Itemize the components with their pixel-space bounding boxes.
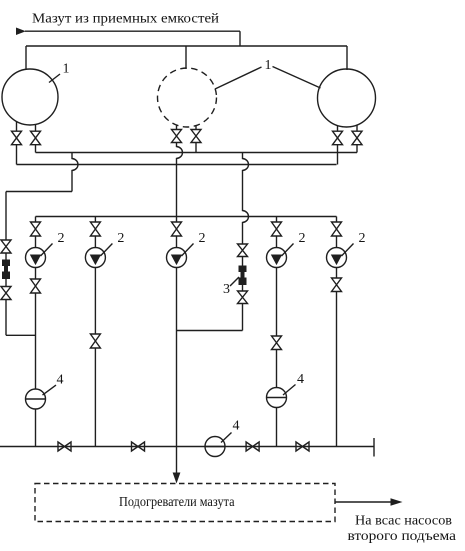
- svg-text:Мазут из приемных емкостей: Мазут из приемных емкостей: [32, 12, 220, 27]
- pump5 discharge wire: [336, 268, 338, 279]
- tank2 left outlet stub: [176, 126, 178, 130]
- pump1 wire to manifold: [35, 409, 37, 447]
- pump P5 (item 2): [327, 248, 347, 268]
- pump4 discharge wire: [276, 268, 278, 337]
- svg-text:2: 2: [299, 231, 306, 246]
- arrowhead into heaters: [173, 473, 181, 484]
- tank3 left outlet stub: [337, 126, 339, 132]
- wire tank1-left-valve to collector B: [16, 145, 18, 165]
- manifold valve 1: [58, 442, 71, 451]
- wire to tank T2 top: [185, 46, 187, 69]
- svg-text:На всас насосов: На всас насосов: [355, 514, 452, 529]
- filter F2 (item 3): [239, 266, 247, 286]
- drop from collector A over collector B: [72, 153, 78, 192]
- pump5 wire to manifold: [336, 292, 338, 447]
- pump2 discharge valve: [90, 334, 100, 348]
- wire filter F2 down: [242, 304, 244, 331]
- flow meter FM2 (item 4): [267, 388, 287, 408]
- tank1 right outlet stub: [35, 124, 37, 131]
- tank 2 (middle, dashed, item 1): [158, 68, 217, 127]
- pump suction header: [36, 216, 337, 218]
- tank3 right outlet stub: [356, 125, 358, 131]
- wire: [5, 279, 7, 287]
- flow meter FM3 (item 4) on manifold: [205, 437, 225, 457]
- pump1 discharge wire down: [35, 293, 37, 389]
- leader to label 2 (pump5): [342, 244, 354, 257]
- inlet flow arrowhead: [16, 28, 26, 36]
- svg-text:2: 2: [117, 231, 124, 246]
- pump1 suction valve: [31, 222, 41, 236]
- wire to left filter branch: [6, 191, 72, 193]
- pump5 suction wire: [336, 236, 338, 248]
- wire: [5, 253, 7, 260]
- wire tank3-right-valve to collector A: [356, 145, 358, 153]
- valve under tank1 right: [31, 131, 41, 145]
- pump3 suction wire: [176, 236, 178, 248]
- svg-text:2: 2: [359, 231, 366, 246]
- pump P3 (item 2): [167, 248, 187, 268]
- wire filter F1 down: [5, 300, 7, 336]
- wire tank2-left-valve over collector A to suction header: [177, 143, 183, 217]
- leader to label 1 (left): [49, 74, 60, 83]
- tank 1 (left, item 1): [2, 69, 58, 125]
- discharge manifold: [0, 446, 374, 448]
- leader to label 4 (FM1): [43, 385, 57, 395]
- valve under tank1 left: [12, 131, 22, 145]
- leader to label 3: [230, 277, 239, 286]
- tank1 left outlet stub: [16, 121, 18, 131]
- valve under tank2 right: [191, 130, 201, 143]
- pump P4 (item 2): [267, 248, 287, 268]
- manifold end terminator: [373, 438, 375, 457]
- pump3 suction valve: [172, 222, 182, 236]
- leader from label 1 to tank 2: [215, 67, 262, 89]
- pump2 suction valve: [90, 222, 100, 236]
- wire filter F2 to pump3 discharge: [177, 330, 243, 332]
- flow meter FM1 (item 4): [26, 389, 46, 409]
- svg-text:1: 1: [265, 58, 272, 73]
- svg-text:4: 4: [297, 372, 304, 387]
- manifold valve 4: [296, 442, 309, 451]
- wire to tank T1 top: [25, 46, 27, 70]
- svg-text:3: 3: [223, 282, 230, 297]
- pump1 suction stub: [35, 217, 37, 223]
- pump2 suction stub: [94, 217, 96, 223]
- pump1 discharge valve: [31, 279, 41, 293]
- leader to label 4 (FM2): [283, 385, 296, 396]
- valve above filter F1: [1, 240, 11, 253]
- pump2 suction wire: [94, 236, 96, 248]
- valve below filter F2: [238, 291, 248, 304]
- filter F1: [2, 260, 10, 280]
- svg-text:2: 2: [199, 231, 206, 246]
- manifold valve 2: [132, 442, 145, 451]
- pump4 wire down: [276, 350, 278, 388]
- valve under tank2 left: [172, 130, 182, 143]
- drop from collector A over collector B and header: [243, 153, 249, 245]
- pump4 suction valve: [272, 222, 282, 236]
- svg-text:второго подъема: второго подъема: [348, 529, 457, 544]
- svg-text:4: 4: [233, 419, 240, 434]
- leader to label 2 (pump2): [100, 244, 112, 257]
- wire tank1-right-valve to collector A: [35, 145, 37, 153]
- pump P2 (item 2): [85, 248, 105, 268]
- pump3 suction stub: [176, 217, 178, 223]
- valve below filter F1: [1, 287, 11, 300]
- outlet arrowhead: [391, 498, 403, 506]
- pump1 suction wire: [35, 236, 37, 248]
- wire: [242, 257, 244, 266]
- tank 3 (right, item 1): [318, 69, 376, 127]
- pump5 suction stub: [336, 217, 338, 223]
- tank2 right outlet stub: [195, 126, 197, 130]
- wire to tank T3 top: [346, 46, 348, 70]
- collector A: [36, 152, 358, 154]
- tank top header wire: [26, 45, 347, 47]
- leader from label 1 to tank 3: [273, 67, 321, 89]
- pump5 discharge valve: [332, 278, 342, 292]
- pump5 suction valve: [332, 222, 342, 236]
- pump4 wire to manifold: [276, 408, 278, 447]
- wire tank3-left-valve to collector B: [337, 145, 339, 165]
- leader to label 2 (pump3): [182, 244, 194, 257]
- leader to label 2 (pump1): [41, 244, 53, 257]
- pump4 suction stub: [276, 217, 278, 223]
- svg-text:1: 1: [63, 62, 70, 77]
- left filter branch wire down: [5, 192, 7, 241]
- pump1 discharge wire: [35, 268, 37, 280]
- collector B: [17, 164, 337, 166]
- svg-text:2: 2: [58, 231, 65, 246]
- pump3 discharge wire to heaters: [176, 268, 178, 473]
- pump P1 (item 2): [26, 248, 46, 268]
- inlet wire drop: [239, 31, 241, 46]
- wire filter F1 to pump1 discharge: [6, 334, 36, 336]
- manifold valve 3: [246, 442, 259, 451]
- wire: [242, 285, 244, 291]
- outlet wire from heaters: [335, 501, 391, 503]
- leader to label 4 (FM3): [221, 433, 232, 443]
- valve under tank3 left: [333, 131, 343, 145]
- valve under tank3 right: [352, 131, 362, 145]
- pump2 discharge wire: [94, 268, 96, 335]
- svg-text:Подогреватели мазута: Подогреватели мазута: [119, 495, 235, 510]
- pump4 discharge valve: [272, 336, 282, 350]
- leader to label 2 (pump4): [282, 244, 294, 257]
- pump2 wire to manifold: [94, 348, 96, 447]
- inlet wire horizontal: [25, 30, 240, 32]
- valve above filter F2 (item 3): [238, 244, 248, 257]
- svg-text:4: 4: [57, 373, 64, 388]
- pump4 suction wire: [276, 236, 278, 248]
- heaters dashed box: [35, 484, 335, 522]
- wire tank2-right-valve to collector A: [195, 143, 197, 153]
